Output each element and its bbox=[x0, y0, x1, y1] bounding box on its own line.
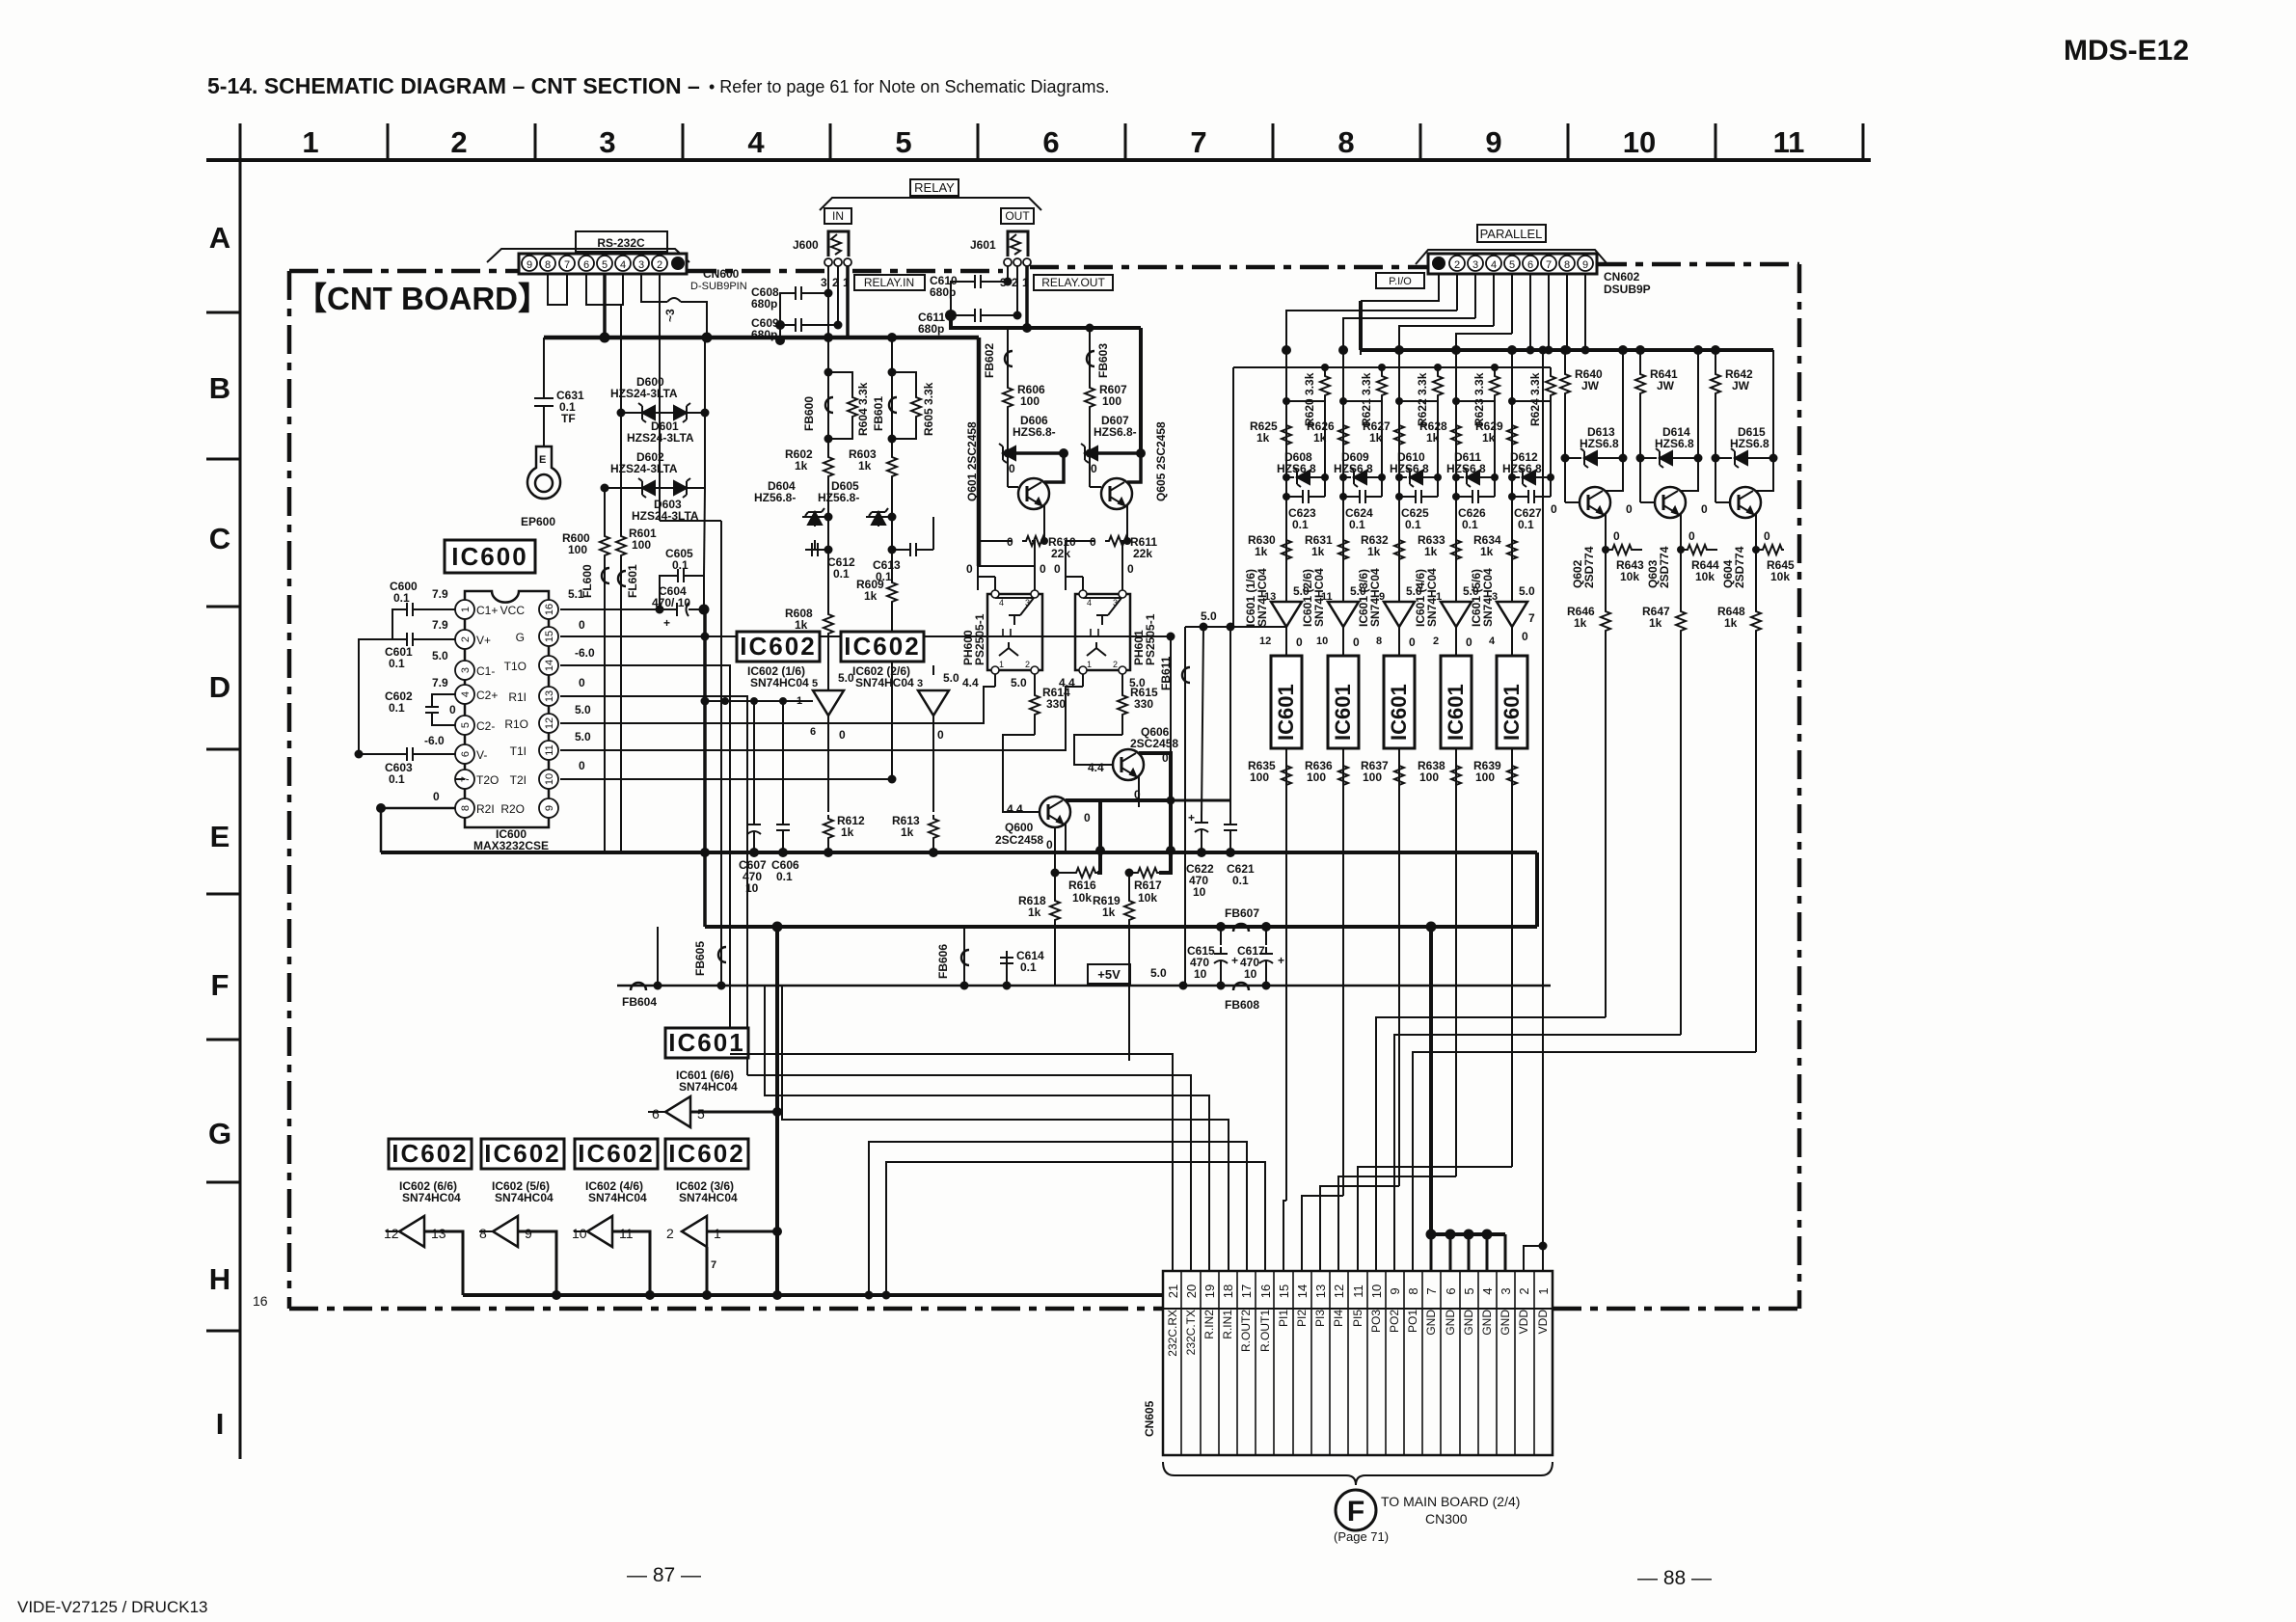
resistor R631 1k bbox=[1338, 536, 1348, 561]
resistor R633 1k bbox=[1451, 536, 1461, 561]
+5V label box bbox=[1088, 964, 1130, 984]
wire R.OUT2 pin17 bbox=[869, 1142, 1247, 1295]
svg-text:0: 0 bbox=[1409, 635, 1416, 649]
svg-text:FB601: FB601 bbox=[872, 396, 885, 431]
svg-text:PI5: PI5 bbox=[1351, 1310, 1364, 1327]
svg-text:10k: 10k bbox=[1770, 570, 1790, 583]
svg-text:0: 0 bbox=[1009, 462, 1015, 475]
capacitor C613 bbox=[904, 543, 923, 556]
svg-text:TF: TF bbox=[561, 412, 576, 425]
svg-text:0.1: 0.1 bbox=[1349, 518, 1365, 531]
resistor R618 bbox=[1054, 873, 1056, 897]
svg-text:HZS24-3LTA: HZS24-3LTA bbox=[610, 387, 678, 400]
svg-text:4.4: 4.4 bbox=[1088, 761, 1104, 774]
svg-text:5: 5 bbox=[1462, 1287, 1476, 1294]
svg-text:2SD774: 2SD774 bbox=[1582, 546, 1596, 588]
diode D601 bbox=[674, 403, 690, 422]
pin 3 bbox=[1468, 256, 1483, 271]
ferrite bead FB606 bbox=[963, 925, 965, 986]
svg-text:— 88 —: — 88 — bbox=[1637, 1567, 1712, 1589]
column ticks bbox=[388, 123, 1863, 160]
resistor R610 bbox=[1022, 536, 1047, 546]
svg-text:J600: J600 bbox=[793, 238, 819, 252]
resistor R616 bbox=[1051, 869, 1060, 878]
resistor R605 3.3k bbox=[892, 372, 916, 393]
resistor R627 1k bbox=[1394, 421, 1404, 446]
connector CN602 body bbox=[1428, 254, 1597, 274]
svg-text:HZS6.8: HZS6.8 bbox=[1655, 437, 1694, 450]
resistor R642 JW bbox=[1715, 350, 1716, 370]
svg-text:0: 0 bbox=[1613, 529, 1620, 543]
svg-text:D: D bbox=[209, 670, 230, 704]
resistor R630 1k bbox=[1282, 536, 1291, 561]
svg-text:5.0: 5.0 bbox=[575, 730, 591, 743]
svg-text:0.1: 0.1 bbox=[672, 558, 689, 572]
svg-text:1k: 1k bbox=[1255, 545, 1268, 558]
svg-text:4.4: 4.4 bbox=[1007, 802, 1023, 816]
resistor R609 bbox=[891, 550, 893, 579]
svg-text:3: 3 bbox=[821, 276, 827, 289]
ferrite bead FB608 bbox=[1233, 983, 1249, 990]
svg-text:Q600: Q600 bbox=[1005, 821, 1034, 834]
resistor R640 JW bbox=[1564, 350, 1566, 370]
svg-text:IC601: IC601 bbox=[1387, 684, 1411, 741]
svg-text:R.IN2: R.IN2 bbox=[1202, 1310, 1216, 1339]
svg-text:0: 0 bbox=[1353, 635, 1360, 649]
svg-text:PO2: PO2 bbox=[1388, 1310, 1401, 1333]
svg-text:6: 6 bbox=[652, 1106, 660, 1122]
svg-text:R605 3.3k: R605 3.3k bbox=[922, 382, 935, 436]
svg-text:0: 0 bbox=[1040, 562, 1046, 576]
resistor R628 1k bbox=[1451, 421, 1461, 446]
resistor R636 100 bbox=[1338, 762, 1348, 787]
IC600 chip body bbox=[465, 591, 549, 827]
capacitor C623 bbox=[1296, 490, 1315, 503]
ferrite bead FB604 bbox=[617, 985, 1551, 987]
svg-text:SN74HC04: SN74HC04 bbox=[750, 676, 809, 689]
resistor R621 3.3k bbox=[1381, 367, 1383, 372]
svg-text:5.0: 5.0 bbox=[1150, 966, 1167, 980]
pin 9 bbox=[1578, 256, 1593, 271]
svg-text:IC602: IC602 bbox=[668, 1139, 744, 1168]
OUT label box bbox=[1001, 208, 1034, 224]
pin shell bbox=[1432, 257, 1445, 270]
wire VCC pin16 bbox=[560, 608, 704, 610]
IC600 pins right bbox=[539, 600, 558, 818]
svg-text:8: 8 bbox=[1337, 125, 1354, 159]
wire PO1 pin8 bbox=[1413, 1052, 1756, 1271]
svg-text:DSUB9P: DSUB9P bbox=[1604, 283, 1651, 296]
svg-text:0: 0 bbox=[579, 618, 585, 632]
svg-text:10: 10 bbox=[1623, 125, 1656, 159]
ferrite bead FB607 bbox=[1233, 924, 1249, 932]
svg-text:R616: R616 bbox=[1068, 879, 1096, 892]
IC602 label box (5/6) bbox=[481, 1139, 564, 1169]
capacitor C624 bbox=[1353, 490, 1372, 503]
svg-text:2: 2 bbox=[1454, 259, 1460, 271]
svg-text:T2O: T2O bbox=[476, 773, 499, 787]
svg-text:RELAY.OUT: RELAY.OUT bbox=[1041, 276, 1105, 289]
svg-text:FB602: FB602 bbox=[983, 343, 996, 378]
svg-text:1k: 1k bbox=[1649, 616, 1662, 630]
CN605 pin numbers bbox=[1166, 1284, 1551, 1298]
svg-text:100: 100 bbox=[1363, 770, 1382, 784]
svg-text:4: 4 bbox=[747, 125, 765, 159]
svg-text:0.1: 0.1 bbox=[389, 701, 405, 715]
P.I/O label box bbox=[1376, 273, 1424, 288]
wire channel column bbox=[1511, 350, 1513, 602]
svg-text:4: 4 bbox=[999, 598, 1004, 608]
IC601 label box vertical bbox=[1497, 656, 1527, 748]
svg-text:1k: 1k bbox=[795, 618, 808, 632]
inverter IC602 3/6 bbox=[682, 1216, 707, 1247]
svg-text:C1-: C1- bbox=[476, 664, 495, 678]
svg-text:6: 6 bbox=[810, 726, 816, 738]
svg-text:R624 3.3k: R624 3.3k bbox=[1528, 372, 1542, 426]
pin 7 bbox=[559, 256, 575, 271]
~3 squiggle label bbox=[667, 298, 681, 302]
svg-text:1: 1 bbox=[460, 607, 472, 612]
IC600 label box bbox=[445, 540, 535, 573]
svg-text:CN605: CN605 bbox=[1143, 1400, 1156, 1437]
svg-text:3: 3 bbox=[1472, 259, 1478, 271]
svg-text:10k: 10k bbox=[1620, 570, 1639, 583]
RELAY label box bbox=[910, 179, 959, 196]
svg-text:4: 4 bbox=[1491, 259, 1497, 271]
IC601 label box bbox=[665, 1028, 748, 1058]
svg-text:RELAY.IN: RELAY.IN bbox=[864, 276, 914, 289]
wire bridge to C605 rail bbox=[704, 488, 705, 576]
inverter IC602 5/6 bbox=[493, 1216, 518, 1247]
ferrite bead FB600 bbox=[827, 338, 829, 439]
svg-text:7.9: 7.9 bbox=[432, 618, 448, 632]
svg-text:16: 16 bbox=[544, 604, 555, 615]
svg-text:0.1: 0.1 bbox=[393, 591, 410, 605]
ferrite bead FB611 bbox=[1184, 627, 1186, 986]
IC600 pin names bbox=[476, 604, 528, 816]
svg-text:IC601: IC601 bbox=[1274, 684, 1298, 741]
svg-text:1k: 1k bbox=[1724, 616, 1738, 630]
svg-text:J601: J601 bbox=[970, 238, 996, 252]
row ticks bbox=[206, 312, 240, 1331]
svg-text:1: 1 bbox=[714, 1226, 721, 1241]
CN605 number/name divider bbox=[1163, 1308, 1553, 1310]
svg-text:HZS6.8: HZS6.8 bbox=[1730, 437, 1769, 450]
svg-text:7.9: 7.9 bbox=[432, 587, 448, 601]
svg-text:14: 14 bbox=[544, 660, 555, 671]
thick vertical x806 bbox=[775, 927, 779, 1295]
thick stubs to bus bbox=[1098, 807, 1102, 851]
svg-text:E: E bbox=[210, 820, 230, 853]
resistor R623 3.3k bbox=[1494, 367, 1496, 372]
svg-text:5: 5 bbox=[895, 125, 911, 159]
svg-text:SN74HC04: SN74HC04 bbox=[495, 1191, 554, 1204]
resistor R632 1k bbox=[1394, 536, 1404, 561]
pin 5 bbox=[1504, 256, 1520, 271]
pin 6 bbox=[1523, 256, 1538, 271]
svg-text:0.1: 0.1 bbox=[1292, 518, 1309, 531]
wire R.IN1 pin18 bbox=[782, 986, 1229, 1271]
svg-text:MDS-E12: MDS-E12 bbox=[2064, 35, 2189, 67]
resistor R606 bbox=[1003, 384, 1013, 409]
pin 4 bbox=[1486, 256, 1501, 271]
svg-text:5.0: 5.0 bbox=[1011, 676, 1027, 689]
svg-text:C2-: C2- bbox=[476, 719, 495, 733]
svg-text:2SD774: 2SD774 bbox=[1733, 546, 1746, 588]
pin 8 bbox=[1559, 256, 1575, 271]
PH601 bottom wires bbox=[1083, 674, 1122, 687]
svg-text:5.0: 5.0 bbox=[838, 671, 854, 685]
wire U-tie down column bbox=[620, 305, 622, 413]
svg-text:IN: IN bbox=[832, 209, 844, 223]
resistor R624 3.3k bbox=[1550, 367, 1552, 372]
Q600 wires bbox=[1003, 735, 1171, 851]
svg-text:7: 7 bbox=[564, 259, 570, 271]
wire thick corner x1183 bbox=[1139, 328, 1143, 453]
svg-text:330: 330 bbox=[1046, 697, 1066, 711]
capacitor C601 bbox=[400, 633, 419, 646]
capacitor C602 bbox=[432, 694, 455, 725]
svg-text:0: 0 bbox=[1551, 502, 1557, 516]
svg-text:2: 2 bbox=[666, 1226, 674, 1241]
pin 7 bbox=[1541, 256, 1556, 271]
resistor R607 bbox=[1085, 384, 1094, 409]
svg-text:2: 2 bbox=[1517, 1287, 1531, 1294]
svg-text:21: 21 bbox=[1166, 1284, 1180, 1298]
svg-text:FB604: FB604 bbox=[622, 995, 657, 1009]
svg-text:PI4: PI4 bbox=[1332, 1310, 1345, 1327]
resistor R617 bbox=[1125, 869, 1134, 878]
wire GND pin7 feed bbox=[1429, 927, 1433, 1234]
svg-text:R621 3.3k: R621 3.3k bbox=[1360, 372, 1373, 426]
svg-text:G: G bbox=[208, 1117, 231, 1150]
wire PO2 pin9 bbox=[1394, 1035, 1681, 1271]
svg-text:VCC: VCC bbox=[500, 604, 526, 617]
svg-text:SN74HC04: SN74HC04 bbox=[679, 1080, 738, 1094]
wire PI1 pin15 bbox=[1283, 1201, 1286, 1271]
svg-text:IC602: IC602 bbox=[740, 632, 816, 661]
CN605 cell dividers bbox=[1181, 1271, 1534, 1455]
svg-text:10: 10 bbox=[1316, 635, 1328, 647]
wire R611 to PH601 pin4 bbox=[1066, 541, 1095, 577]
Q605 collector wire bbox=[1127, 453, 1141, 482]
wire pin7 T2O stub bbox=[455, 778, 465, 780]
svg-text:6: 6 bbox=[1444, 1287, 1458, 1294]
svg-text:4: 4 bbox=[1480, 1287, 1495, 1294]
svg-text:CN602: CN602 bbox=[1604, 270, 1640, 284]
svg-text:2SD774: 2SD774 bbox=[1658, 546, 1671, 588]
svg-text:8: 8 bbox=[479, 1226, 487, 1241]
svg-text:6: 6 bbox=[583, 259, 589, 271]
svg-text:GND: GND bbox=[1462, 1310, 1475, 1336]
svg-text:0: 0 bbox=[449, 703, 456, 716]
wire pins 8-7 tie bbox=[548, 274, 567, 305]
svg-text:JW: JW bbox=[1732, 379, 1750, 392]
transistor Q604 bbox=[1715, 458, 1716, 502]
svg-text:11: 11 bbox=[619, 1226, 634, 1241]
collector wire bbox=[1681, 458, 1698, 491]
svg-text:0.1: 0.1 bbox=[389, 772, 405, 786]
pin 8 bbox=[540, 256, 555, 271]
svg-text:1k: 1k bbox=[1102, 906, 1116, 919]
RELAY.OUT label box bbox=[1034, 275, 1113, 290]
svg-text:680p: 680p bbox=[918, 322, 944, 336]
svg-text:A: A bbox=[209, 221, 230, 255]
svg-text:0: 0 bbox=[1688, 529, 1695, 543]
svg-text:0: 0 bbox=[1091, 462, 1097, 475]
svg-text:1k: 1k bbox=[1028, 906, 1041, 919]
svg-text:+: + bbox=[1278, 954, 1284, 967]
IC601 label box vertical bbox=[1271, 656, 1302, 748]
svg-text:R2O: R2O bbox=[500, 802, 525, 816]
wire 232C.TX pin20 bbox=[747, 1075, 1191, 1271]
svg-text:PO3: PO3 bbox=[1369, 1310, 1383, 1333]
svg-text:1k: 1k bbox=[858, 459, 872, 473]
svg-text:IC601: IC601 bbox=[668, 1028, 744, 1057]
svg-text:SN74HC04: SN74HC04 bbox=[588, 1191, 647, 1204]
input wire to inv1 bbox=[705, 700, 813, 702]
svg-text:R623 3.3k: R623 3.3k bbox=[1472, 372, 1486, 426]
svg-text:10: 10 bbox=[1194, 967, 1207, 981]
wire emitter down / resistor R648 bbox=[1755, 550, 1757, 608]
svg-text:100: 100 bbox=[1102, 394, 1121, 408]
svg-text:SN74HC04: SN74HC04 bbox=[855, 676, 914, 689]
svg-text:0.1: 0.1 bbox=[776, 870, 793, 883]
svg-text:R604 3.3k: R604 3.3k bbox=[856, 382, 870, 436]
wire inv 3/6 output down bbox=[706, 1247, 709, 1295]
svg-text:• Refer to page 61 for Note on: • Refer to page 61 for Note on Schematic… bbox=[709, 77, 1110, 96]
svg-text:22k: 22k bbox=[1133, 547, 1152, 560]
wire x1279 down bbox=[1232, 367, 1234, 627]
top edge bbox=[289, 269, 518, 274]
resistor R614 bbox=[1034, 687, 1036, 691]
pin 2 bbox=[1449, 256, 1465, 271]
ferrite bead FL600 bbox=[604, 557, 606, 852]
svg-text:F: F bbox=[211, 968, 230, 1002]
svg-text:11: 11 bbox=[1773, 125, 1805, 159]
wire emitter down / resistor R647 bbox=[1680, 550, 1682, 608]
svg-text:HZS6.8-: HZS6.8- bbox=[1013, 425, 1056, 439]
svg-text:3: 3 bbox=[1113, 598, 1118, 608]
svg-text:R.IN1: R.IN1 bbox=[1221, 1310, 1234, 1339]
svg-text:9: 9 bbox=[525, 1226, 532, 1241]
resistor R635 100 bbox=[1282, 762, 1291, 787]
IC602 label box (6/6) bbox=[389, 1139, 472, 1169]
wire pins 6-4 tie bbox=[586, 274, 623, 305]
svg-text:4: 4 bbox=[1087, 598, 1092, 608]
connector F circle bbox=[1336, 1490, 1376, 1530]
resistor R619 bbox=[1128, 873, 1130, 897]
capacitor C626 bbox=[1466, 490, 1485, 503]
wire channel column bbox=[1398, 350, 1400, 602]
svg-text:HZ56.8-: HZ56.8- bbox=[754, 491, 796, 504]
svg-text:0: 0 bbox=[1127, 562, 1134, 576]
svg-text:8: 8 bbox=[545, 259, 551, 271]
capacitor C603 bbox=[400, 747, 419, 761]
inverter IC602 2/6 bbox=[918, 690, 949, 716]
vertical main column x731 bbox=[703, 609, 707, 927]
svg-text:0: 0 bbox=[1046, 838, 1053, 852]
GND tie bar bbox=[1431, 1232, 1505, 1236]
svg-text:0: 0 bbox=[1084, 811, 1091, 825]
svg-text:FB603: FB603 bbox=[1096, 343, 1110, 378]
junction dots on bus E bbox=[1095, 846, 1105, 855]
svg-text:I: I bbox=[216, 1407, 225, 1441]
svg-text:V+: V+ bbox=[476, 634, 491, 647]
svg-text:0.1: 0.1 bbox=[389, 657, 405, 670]
svg-text:7: 7 bbox=[711, 1259, 716, 1271]
resistor R637 100 bbox=[1394, 762, 1404, 787]
svg-text:680p: 680p bbox=[751, 297, 777, 311]
svg-text:PS2505-1: PS2505-1 bbox=[1144, 613, 1157, 665]
svg-text:IC600: IC600 bbox=[451, 542, 527, 571]
svg-text:2: 2 bbox=[460, 636, 472, 642]
resistor R613 bbox=[929, 815, 938, 840]
svg-text:0: 0 bbox=[1466, 635, 1472, 649]
wire G pin15 long bbox=[560, 635, 1171, 637]
diode D603 bbox=[674, 478, 690, 498]
svg-text:1: 1 bbox=[999, 660, 1004, 669]
Q606 wires bbox=[1074, 735, 1171, 807]
svg-text:GND: GND bbox=[1424, 1310, 1438, 1336]
svg-text:Q601 2SC2458: Q601 2SC2458 bbox=[965, 421, 979, 501]
svg-text:FB608: FB608 bbox=[1225, 998, 1259, 1012]
wire R.IN2 pin19 bbox=[765, 986, 1209, 1271]
svg-text:9: 9 bbox=[527, 259, 532, 271]
svg-text:PS2505-1: PS2505-1 bbox=[973, 613, 986, 665]
transistor Q605 bbox=[1101, 478, 1132, 509]
svg-text:5: 5 bbox=[1509, 259, 1515, 271]
svg-text:F: F bbox=[1347, 1496, 1364, 1527]
svg-text:+: + bbox=[663, 616, 670, 630]
svg-text:C: C bbox=[209, 522, 230, 555]
svg-text:4: 4 bbox=[1489, 635, 1496, 647]
svg-text:0.1: 0.1 bbox=[1232, 874, 1249, 887]
left edge bbox=[287, 271, 292, 1309]
svg-text:TO MAIN BOARD (2/4): TO MAIN BOARD (2/4) bbox=[1381, 1494, 1520, 1509]
svg-text:PI2: PI2 bbox=[1295, 1310, 1309, 1327]
svg-text:FB607: FB607 bbox=[1225, 906, 1259, 920]
svg-text:1k: 1k bbox=[1482, 431, 1496, 445]
connector CN600 body bbox=[519, 254, 687, 274]
svg-text:T2I: T2I bbox=[510, 773, 527, 787]
wire pin3 down bbox=[641, 274, 667, 302]
svg-text:5.0: 5.0 bbox=[1519, 584, 1535, 598]
capacitor C615 bbox=[1220, 927, 1222, 945]
svg-text:680p: 680p bbox=[930, 285, 956, 299]
svg-text:5.0: 5.0 bbox=[432, 649, 448, 662]
svg-text:680p: 680p bbox=[751, 328, 777, 341]
transistor Q603 bbox=[1639, 458, 1641, 502]
svg-text:0: 0 bbox=[433, 790, 440, 803]
svg-text:12: 12 bbox=[1332, 1284, 1346, 1298]
pin 2 bbox=[652, 256, 667, 271]
wire shell down bbox=[1361, 274, 1439, 301]
J600 pins bbox=[824, 258, 832, 266]
svg-text:10: 10 bbox=[544, 773, 555, 785]
collector wire bbox=[1756, 458, 1773, 491]
IC600 pins left bbox=[455, 600, 474, 818]
emitter / resistor R643 bbox=[1605, 514, 1607, 550]
svg-text:H: H bbox=[209, 1262, 230, 1296]
transistor Q600 bbox=[1040, 797, 1070, 827]
svg-text:PARALLEL: PARALLEL bbox=[1480, 227, 1543, 241]
capacitor C625 bbox=[1409, 490, 1428, 503]
svg-text:1k: 1k bbox=[1311, 545, 1325, 558]
capacitor C631 bbox=[534, 338, 554, 446]
svg-text:5: 5 bbox=[697, 1106, 705, 1122]
connector CN600 label box RS-232C bbox=[576, 231, 667, 252]
